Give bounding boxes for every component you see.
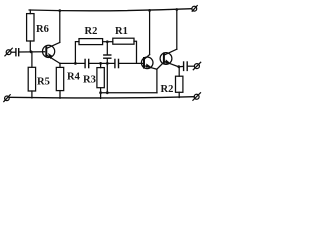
- transistor VT3: [157, 49, 179, 69]
- wire R1 right drop: [134, 41, 137, 63]
- resistor R4: [56, 63, 63, 98]
- capacitor C2: [85, 59, 89, 67]
- transistor VT2: [141, 55, 156, 70]
- svg-text:R2: R2: [161, 84, 174, 95]
- svg-text:R1: R1: [115, 26, 128, 37]
- node bus R3 junction: [99, 91, 102, 94]
- node R3 top junction: [99, 62, 102, 65]
- capacitor C5: [184, 62, 188, 70]
- node mid divider junction: [106, 40, 109, 43]
- wire R2 drop: [75, 42, 79, 64]
- wire input to C1: [11, 51, 16, 53]
- wire bus to VT2 base: [119, 62, 144, 64]
- resistor R2: [79, 39, 103, 45]
- svg-text:R6: R6: [36, 24, 49, 35]
- node collector rail junction: [58, 9, 61, 12]
- svg-text:R4: R4: [67, 72, 81, 83]
- capacitor C3: [115, 59, 119, 67]
- resistor R5: [28, 52, 35, 98]
- node emitter output junction: [177, 65, 180, 68]
- resistor R3: [97, 63, 104, 98]
- resistor R7: [176, 67, 183, 98]
- wire bottom common rail: [9, 97, 194, 98]
- wire emitter bus left: [60, 62, 85, 64]
- resistor R6: [27, 10, 34, 52]
- wire VT3 collector to rail: [176, 9, 178, 49]
- wire top supply rail: [29, 9, 192, 11]
- wire VT1 collector to top rail: [59, 10, 61, 42]
- wire C1 to base VT1: [19, 51, 45, 53]
- node decoupling cross junction: [106, 62, 109, 65]
- terminal top-right: [192, 6, 197, 12]
- wire bus mid: [89, 62, 115, 64]
- node bus cap junction: [106, 91, 109, 94]
- terminal bottom-right: [193, 93, 201, 101]
- wire R2 to R1: [103, 41, 113, 43]
- wire VT2 emitter drop: [156, 69, 158, 93]
- terminal bottom-left: [4, 95, 10, 102]
- capacitor C4 vertical: [104, 42, 111, 93]
- node VT3 rail junction: [175, 8, 178, 11]
- capacitor C1: [16, 49, 19, 56]
- resistor R1: [113, 38, 134, 44]
- node R2 tap junction: [74, 62, 77, 65]
- svg-text:R5: R5: [37, 77, 50, 88]
- node base divider junction: [30, 50, 33, 53]
- node VT2 rail junction: [148, 9, 151, 12]
- svg-text:R2: R2: [85, 26, 98, 37]
- terminal output right: [193, 62, 200, 69]
- wire C5 to output terminal: [187, 65, 194, 67]
- wire VT3 emitter to output: [179, 65, 184, 67]
- transistor VT1: [43, 42, 60, 63]
- wire VT2 collector to rail: [149, 10, 151, 54]
- svg-text:R3: R3: [83, 75, 96, 86]
- wire ground bus lower: [101, 92, 157, 94]
- terminal input left: [5, 48, 12, 56]
